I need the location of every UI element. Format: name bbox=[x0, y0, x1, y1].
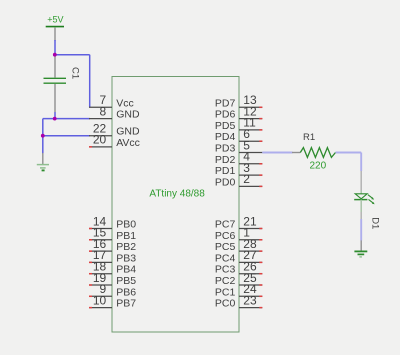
svg-text:PC0: PC0 bbox=[215, 298, 236, 310]
ground (right) bbox=[354, 251, 367, 257]
svg-text:220: 220 bbox=[310, 160, 327, 171]
node C junction dot bbox=[41, 134, 45, 138]
ground (left) bbox=[37, 165, 49, 171]
pin 27 PC4 bbox=[215, 248, 262, 264]
pin 13 PD7 bbox=[215, 93, 262, 109]
pin 20 AVcc bbox=[89, 133, 140, 149]
svg-text:PB1: PB1 bbox=[116, 230, 136, 242]
pin 17 PB3 bbox=[89, 248, 136, 264]
ground lead right bbox=[360, 240, 362, 251]
power +5V lead bbox=[54, 28, 56, 41]
wire D1 to ground bbox=[360, 219, 362, 241]
wire C1 to node B bbox=[54, 112, 56, 119]
svg-text:PC1: PC1 bbox=[215, 286, 236, 298]
pin 26 PC3 bbox=[215, 260, 262, 276]
pin 22 GND bbox=[89, 122, 140, 138]
pin 7 Vcc bbox=[89, 93, 134, 109]
capacitor C1 label bbox=[69, 67, 80, 79]
wire Vcc corner down to pin 7 bbox=[89, 55, 91, 108]
svg-text:PC7: PC7 bbox=[215, 219, 236, 231]
svg-text:PD0: PD0 bbox=[215, 176, 236, 188]
pin 21 PC7 bbox=[215, 214, 262, 230]
svg-text:PC5: PC5 bbox=[215, 241, 236, 253]
pin 16 PB2 bbox=[89, 237, 136, 253]
svg-text:PD4: PD4 bbox=[215, 131, 236, 143]
svg-text:PB6: PB6 bbox=[116, 286, 136, 298]
capacitor C1 bottom lead bbox=[54, 84, 56, 112]
resistor R1 bbox=[300, 148, 335, 158]
svg-text:R1: R1 bbox=[303, 132, 315, 143]
svg-text:PC4: PC4 bbox=[215, 252, 236, 264]
pin 28 PC5 bbox=[215, 237, 262, 253]
power +5V label bbox=[47, 15, 63, 25]
svg-text:PB2: PB2 bbox=[116, 241, 136, 253]
LED D1 bottom lead bbox=[360, 200, 362, 219]
wire node C to pin 22 GND bbox=[43, 135, 90, 137]
wire pin 5 PD3 to R1 bbox=[262, 152, 292, 154]
pin 10 PB7 bbox=[89, 293, 136, 309]
pin 18 PB4 bbox=[89, 260, 136, 276]
pin 19 PB5 bbox=[89, 271, 136, 287]
svg-text:PB3: PB3 bbox=[116, 252, 136, 264]
svg-text:PD5: PD5 bbox=[215, 120, 236, 132]
svg-text:2: 2 bbox=[243, 172, 250, 186]
power +5V bar bbox=[46, 26, 64, 28]
pin 1 PC6 bbox=[215, 226, 262, 242]
wire node A to Vcc corner bbox=[55, 54, 90, 56]
svg-text:GND: GND bbox=[116, 126, 140, 138]
pin 24 PC1 bbox=[215, 282, 262, 298]
svg-text:PC3: PC3 bbox=[215, 264, 236, 276]
svg-text:ATtiny 48/88: ATtiny 48/88 bbox=[149, 189, 205, 200]
svg-text:AVcc: AVcc bbox=[116, 137, 140, 149]
wire node C down to ground bbox=[42, 136, 44, 154]
pin 2 PD0 bbox=[215, 172, 262, 188]
wire corner down to D1 bbox=[360, 153, 362, 172]
LED D1 top lead bbox=[360, 171, 362, 194]
svg-text:PB7: PB7 bbox=[116, 298, 136, 310]
LED D1 bbox=[354, 194, 375, 205]
svg-text:GND: GND bbox=[116, 109, 140, 121]
resistor R1 left lead bbox=[292, 152, 300, 154]
svg-text:PB5: PB5 bbox=[116, 275, 136, 287]
svg-text:PD6: PD6 bbox=[215, 109, 236, 121]
IC U1 ATtiny 48/88 body bbox=[112, 77, 239, 333]
node B junction dot bbox=[53, 117, 57, 121]
svg-text:10: 10 bbox=[93, 293, 107, 307]
wire +5V to node A bbox=[54, 40, 56, 55]
svg-text:PC6: PC6 bbox=[215, 230, 236, 242]
svg-text:Vcc: Vcc bbox=[116, 97, 134, 109]
svg-text:C1: C1 bbox=[69, 67, 80, 79]
svg-text:20: 20 bbox=[93, 133, 107, 147]
IC U1 name label bbox=[149, 189, 205, 200]
pin 14 PB0 bbox=[89, 214, 136, 230]
pin 15 PB1 bbox=[89, 226, 136, 242]
svg-text:PD3: PD3 bbox=[215, 143, 236, 155]
wire node B down to node C bbox=[42, 119, 44, 136]
pin 5 PD3 bbox=[215, 138, 262, 154]
svg-text:D1: D1 bbox=[369, 217, 380, 229]
svg-text:23: 23 bbox=[243, 293, 257, 307]
resistor R1 label bbox=[303, 132, 315, 143]
svg-text:8: 8 bbox=[100, 104, 107, 118]
svg-text:PD2: PD2 bbox=[215, 154, 236, 166]
svg-text:PC2: PC2 bbox=[215, 275, 236, 287]
pin 9 PB6 bbox=[89, 282, 136, 298]
pin 11 PD5 bbox=[215, 116, 262, 132]
capacitor C1 top lead bbox=[54, 55, 56, 78]
pin 23 PC0 bbox=[215, 293, 262, 309]
wire node B to pin 8 GND bbox=[43, 118, 90, 120]
pin 6 PD4 bbox=[215, 127, 262, 143]
svg-text:PD1: PD1 bbox=[215, 165, 236, 177]
capacitor C1 bbox=[44, 78, 67, 83]
pin 3 PD1 bbox=[215, 161, 262, 177]
pin 25 PC2 bbox=[215, 271, 262, 287]
pin 8 GND bbox=[89, 104, 140, 120]
node A junction dot bbox=[53, 53, 57, 57]
pin 12 PD6 bbox=[215, 104, 262, 120]
wire R1 to corner bbox=[336, 152, 362, 154]
LED D1 label bbox=[369, 217, 380, 229]
ground lead left bbox=[42, 153, 44, 165]
svg-text:PD7: PD7 bbox=[215, 97, 236, 109]
resistor R1 value 220 bbox=[310, 160, 327, 171]
svg-text:PB4: PB4 bbox=[116, 264, 136, 276]
pin 4 PD2 bbox=[215, 150, 262, 166]
svg-text:+5V: +5V bbox=[47, 15, 63, 25]
svg-text:PB0: PB0 bbox=[116, 219, 136, 231]
